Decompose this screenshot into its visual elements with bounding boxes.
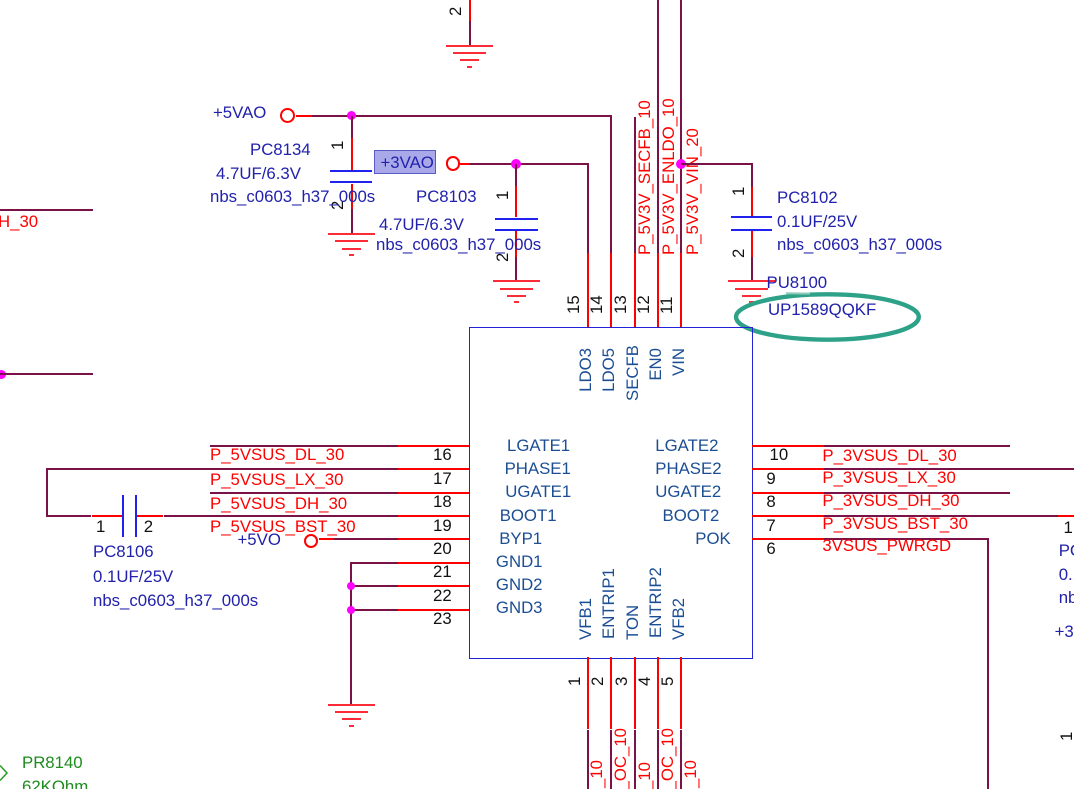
pin number 15 xyxy=(565,296,584,315)
pin number 9 xyxy=(766,470,775,489)
wire pin6 maroon xyxy=(824,538,989,540)
wire top pin2 stub maroon xyxy=(469,21,471,45)
pin name GND2 xyxy=(496,576,543,595)
pin 6 stub red xyxy=(752,538,824,540)
highlight ellipse around UP1589QQKF xyxy=(731,289,926,347)
net label P_5VSUS_BST_30 xyxy=(210,518,356,537)
wire +5VAO down to pin14 maroon xyxy=(610,116,612,254)
wire H_30 net horizontal xyxy=(0,209,93,211)
pin label 2 PC8102 xyxy=(730,249,749,258)
net label pin4 rotated xyxy=(659,728,678,789)
pin 8 stub red xyxy=(752,492,824,494)
pin number 6 xyxy=(766,540,775,559)
wire PC8134 pin2 red xyxy=(351,184,353,210)
footprint nbs_c0603_h37_000s PC8106 xyxy=(93,592,258,611)
junction node GND pin22 xyxy=(347,582,355,590)
net label +5VAO xyxy=(213,104,266,123)
pin number 22 xyxy=(433,587,452,606)
pin 19 stub red xyxy=(398,515,470,517)
pin number 17 xyxy=(433,470,452,489)
pin name GND1 xyxy=(496,553,543,572)
pin label 1 PC8102 xyxy=(730,187,749,196)
pin number 13 xyxy=(612,296,631,315)
pin 7 stub red xyxy=(752,515,824,517)
net label P_5V3V_VIN_20 xyxy=(684,128,703,255)
pin name LGATE1 xyxy=(507,437,570,456)
pin number 16 xyxy=(433,446,452,465)
pin name BOOT2 xyxy=(663,507,720,526)
footprint nbs_c0603_h37_000s PC8103 xyxy=(376,236,541,255)
value 4.7UF/6.3V PC8134 xyxy=(216,165,301,184)
capacitor PC8106 plate 2 xyxy=(135,495,137,537)
wire pin9 maroon xyxy=(824,468,1074,470)
op-amp U1: IC PU8100 body xyxy=(469,327,753,659)
net label box +3VAO xyxy=(374,150,435,175)
net label P_5V3V_SECFB_10 xyxy=(636,100,655,255)
far right cap pin stub red xyxy=(1058,515,1074,517)
pin name ENTRIP1 xyxy=(600,568,619,639)
capacitor PC8106 plate 1 xyxy=(122,495,124,537)
pin number 19 xyxy=(433,517,452,536)
pin name UGATE2 xyxy=(655,483,721,502)
pin number 21 xyxy=(433,563,452,582)
net label pin1 rotated xyxy=(588,760,607,789)
wire PC8102 pin2 red xyxy=(751,231,753,257)
pin name LDO5 xyxy=(600,348,619,392)
pin name POK xyxy=(695,530,730,549)
value 4.7UF/6.3V PC8103 xyxy=(379,216,464,235)
net label P_5VSUS_DL_30 xyxy=(210,446,344,465)
junction node VIN / PC8102 xyxy=(676,159,686,169)
wire pin21 maroon xyxy=(350,562,397,564)
node +3VAO open circle xyxy=(446,156,460,170)
pin number 10 xyxy=(770,446,789,465)
wire pin16 maroon xyxy=(210,445,398,447)
wire pin19 BST maroon left xyxy=(46,515,92,517)
refdes PC8106 xyxy=(93,543,154,562)
pin number 4 xyxy=(636,676,655,685)
value 0.1UF/25V PC8102 xyxy=(777,213,857,232)
pin 17 stub red xyxy=(398,468,470,470)
wire pin7 maroon xyxy=(824,515,1058,517)
ground under PC8103 xyxy=(493,280,540,282)
wire pin8 maroon xyxy=(824,492,1011,494)
wire PC8103 top maroon xyxy=(515,164,517,187)
pin 16 stub red xyxy=(398,445,470,447)
pin number 2 xyxy=(589,676,608,685)
pin number 8 xyxy=(766,493,775,512)
pin 14 stub red xyxy=(610,253,612,328)
net label P_5V3V_ENLDO_10 xyxy=(660,98,679,255)
wire +3VAO down to pin15 maroon xyxy=(587,164,589,254)
pin number 12 xyxy=(635,296,654,315)
net label P_5VSUS_DH_30 xyxy=(210,495,347,514)
pin label 1 PC8134 xyxy=(329,140,348,149)
junction node GND pin23 xyxy=(347,606,355,614)
pin number 5 xyxy=(659,676,678,685)
ground under PC8102 xyxy=(728,280,775,282)
node +5VO open circle xyxy=(304,534,318,548)
junction node at +5VAO / PC8134 xyxy=(347,111,356,120)
wire pin19 maroon right xyxy=(164,515,398,517)
pin 18 stub red xyxy=(398,492,470,494)
refdes far right cap PC8105 xyxy=(1059,542,1074,561)
part number UP1589QQKF xyxy=(768,301,876,320)
capacitor PC8103 plate 2 xyxy=(495,229,538,231)
wire pin20 maroon xyxy=(334,538,398,540)
pin name PHASE2 xyxy=(655,460,721,479)
pin number 14 xyxy=(588,296,607,315)
ground under PC8134 xyxy=(328,233,375,235)
pin label 1 PC8103 xyxy=(494,191,513,200)
wire VIN to PC8102 horizontal maroon xyxy=(681,163,753,165)
refdes PC8102 xyxy=(777,189,838,208)
ground bottom center xyxy=(328,704,375,706)
refdes PR8140 xyxy=(22,754,83,773)
wire PC8102 top maroon xyxy=(751,164,753,187)
wire PC8103 pin2 red xyxy=(515,231,517,257)
pin name LDO3 xyxy=(577,348,596,392)
wire VIN vertical maroon xyxy=(680,0,682,253)
net label +5VO xyxy=(238,531,281,550)
wire +3VAO horizontal xyxy=(470,163,589,165)
pin name BYP1 xyxy=(499,530,542,549)
pin name GND3 xyxy=(496,599,543,618)
wire pin23 maroon xyxy=(350,609,397,611)
wire top pin2 stub red xyxy=(469,0,471,21)
pin label 2 PC8106 xyxy=(144,518,153,537)
capacitor PC8102 plate 2 xyxy=(731,229,772,231)
net label H_30 (clipped) xyxy=(0,213,38,232)
refdes PU8100 xyxy=(767,274,828,293)
pin name BOOT1 xyxy=(500,507,557,526)
pin label 2 (top stub) xyxy=(447,6,466,15)
wire pin17 maroon xyxy=(46,468,398,470)
pin label 1 PC8106 xyxy=(96,518,105,537)
pin 10 stub red xyxy=(752,445,824,447)
wire LX corner vertical xyxy=(46,468,48,517)
wire pin1 maroon xyxy=(587,730,589,789)
wire ENLDO vertical maroon xyxy=(657,0,659,253)
wire edge horizontal xyxy=(0,373,93,375)
net label P_3VSUS_LX_30 xyxy=(822,469,955,488)
wire PC8102 to ground maroon xyxy=(751,257,753,280)
wire pin20 red stub at circle xyxy=(319,538,334,540)
pin 20 stub red xyxy=(398,538,470,540)
pin number 23 xyxy=(433,610,452,629)
capacitor PC8134 plate 1 xyxy=(330,170,372,172)
pin 2 stub red (bottom) xyxy=(610,657,612,729)
net label P_3VSUS_BST_30 xyxy=(822,515,968,534)
net label pin3 rotated xyxy=(636,762,655,789)
footprint nbs_c0603_h37_000s PC8102 xyxy=(777,236,942,255)
net label P_5VSUS_LX_30 xyxy=(210,471,343,490)
wire PC8106 pin1 red xyxy=(92,515,122,517)
wire GND vertical maroon xyxy=(350,562,352,704)
pin number 7 xyxy=(766,517,775,536)
net label P_3VSUS_DL_30 xyxy=(822,447,956,466)
pin number 11 xyxy=(658,297,677,314)
wire pin10 maroon xyxy=(824,445,1011,447)
pin label 1 far right cap xyxy=(1064,519,1073,538)
net label +3VAO right edge xyxy=(1055,623,1074,642)
node edge junction dot xyxy=(0,370,6,379)
wire +5VAO horizontal xyxy=(312,115,612,117)
node +5VAO open circle xyxy=(280,108,295,123)
pin 21 stub red xyxy=(398,562,470,564)
net label P_3VSUS_DH_30 xyxy=(822,492,959,511)
footprint far right cap xyxy=(1059,589,1074,608)
pin name UGATE1 xyxy=(505,483,571,502)
net label pin2 rotated xyxy=(612,728,631,789)
pin 12 stub red xyxy=(657,253,659,328)
pin number 1 xyxy=(566,676,585,685)
pin 4 stub red (bottom) xyxy=(657,657,659,729)
wire PC8103 to ground maroon xyxy=(515,257,517,280)
wire pin4 maroon xyxy=(657,730,659,789)
pin number 18 xyxy=(433,493,452,512)
wire PC8103 pin1 red xyxy=(515,186,517,217)
net label pin5 rotated xyxy=(682,760,701,789)
pin name TON xyxy=(624,605,643,640)
wire pin3 maroon xyxy=(634,730,636,789)
pin name EN0 xyxy=(647,348,666,381)
capacitor PC8103 plate 1 xyxy=(495,218,538,220)
pin 3 stub red (bottom) xyxy=(634,657,636,729)
pin 15 stub red xyxy=(587,253,589,328)
refdes PC8103 xyxy=(416,188,477,207)
net label 3VSUS_PWRGD xyxy=(822,537,951,556)
wire PC8106 pin2 red xyxy=(137,515,164,517)
value 0.1UF/25V PC8106 xyxy=(93,568,173,587)
value 62KOhm xyxy=(22,778,88,789)
pin 23 stub red xyxy=(398,609,470,611)
pin 11 stub red xyxy=(680,253,682,328)
refdes PC8134 xyxy=(250,141,311,160)
wire PC8134 to ground maroon xyxy=(351,209,353,233)
pin name PHASE1 xyxy=(505,460,571,479)
capacitor PC8134 plate 2 xyxy=(330,181,372,183)
footprint nbs_c0603_h37_000s PC8134 xyxy=(210,188,375,207)
pin name LGATE2 xyxy=(655,437,718,456)
pin name ENTRIP2 xyxy=(647,567,666,638)
wire +3VAO red stub xyxy=(460,163,470,165)
wire PC8134 top maroon xyxy=(351,116,353,139)
pin name VFB2 xyxy=(670,598,689,640)
wire SECFB vertical maroon xyxy=(634,117,636,253)
wire PC8134 pin1 red xyxy=(351,138,353,170)
wire pin2 maroon xyxy=(610,730,612,789)
pin label 1 bottom right rotated xyxy=(1058,732,1074,741)
pin 22 stub red xyxy=(398,585,470,587)
capacitor PC8102 plate 1 xyxy=(731,216,772,218)
pin name VIN xyxy=(670,348,689,376)
ground top (under pin 2 stub) xyxy=(446,45,493,47)
wire PC8102 pin1 red xyxy=(751,187,753,216)
pin 13 stub red xyxy=(634,253,636,328)
pin name VFB1 xyxy=(577,598,596,640)
pin label 2 PC8134 xyxy=(329,200,348,209)
wire pin18 maroon xyxy=(210,492,398,494)
wire PWRGD vertical maroon xyxy=(987,538,989,789)
pin label 2 PC8103 xyxy=(494,253,513,262)
wire +5VAO red stub xyxy=(296,115,312,117)
pin number 3 xyxy=(613,676,632,685)
off-page diamond tip green xyxy=(0,764,10,782)
pin name SECFB xyxy=(624,345,643,401)
pin 1 stub red (bottom) xyxy=(587,657,589,729)
wire pin5 maroon xyxy=(680,730,682,789)
pin 5 stub red (bottom) xyxy=(680,657,682,729)
wire pin22 maroon xyxy=(350,585,397,587)
pin number 20 xyxy=(433,540,452,559)
value far right cap xyxy=(1059,566,1074,585)
junction node +3VAO / PC8103 xyxy=(511,159,521,169)
pin 9 stub red xyxy=(752,468,824,470)
